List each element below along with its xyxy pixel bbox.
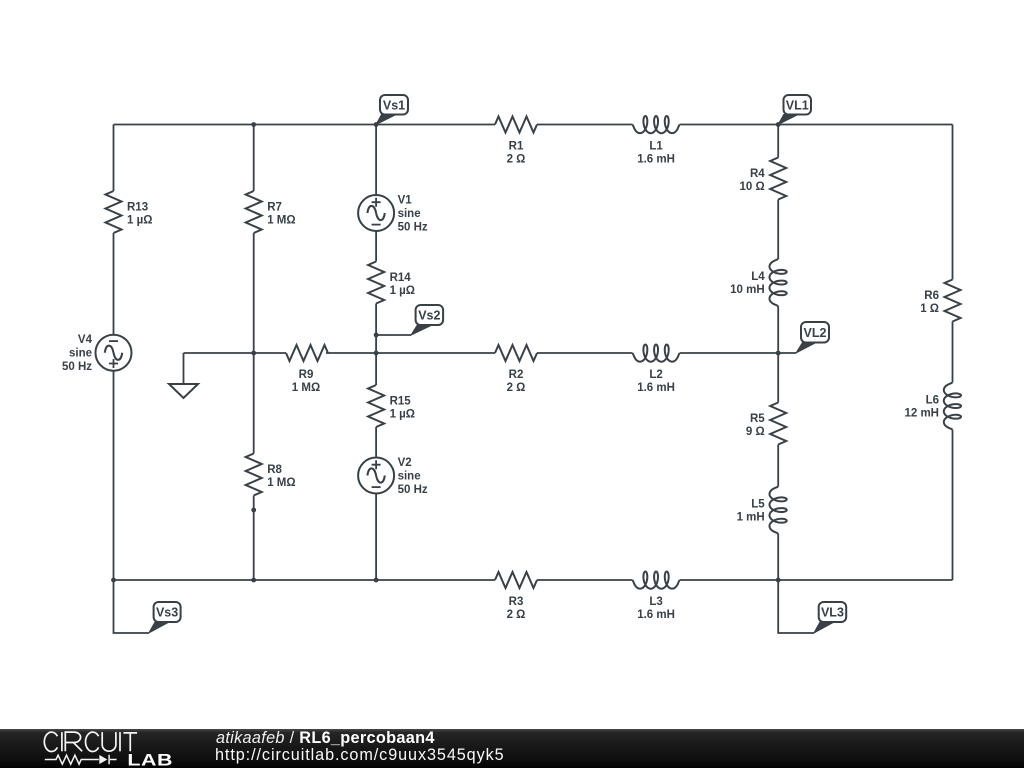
wire [777,200,779,260]
inductor L5 [737,487,787,534]
svg-text:R5: R5 [750,413,765,425]
svg-text:1 MΩ: 1 MΩ [292,382,320,394]
inductor L3 [633,572,680,622]
wire [375,427,377,458]
svg-text:1.6 mH: 1.6 mH [637,154,675,166]
svg-text:R13: R13 [127,202,148,214]
resistor R8 [246,454,296,496]
svg-text:R7: R7 [267,202,282,214]
svg-text:R1: R1 [509,141,524,153]
svg-text:1.6 mH: 1.6 mH [637,382,675,394]
svg-text:1 µΩ: 1 µΩ [390,285,415,297]
svg-text:R14: R14 [390,272,412,284]
junction [776,351,781,356]
svg-text:sine: sine [398,471,421,483]
svg-text:L6: L6 [926,395,939,407]
CircuitLab logo [0,728,210,768]
wire [326,352,495,354]
svg-text:2 Ω: 2 Ω [507,382,526,394]
svg-text:sine: sine [69,348,92,360]
voltage source V2 [358,457,428,496]
junction [251,508,256,513]
wire [253,496,255,581]
footer text [216,729,435,748]
resistor R5 [746,403,786,445]
svg-text:1 Ω: 1 Ω [920,303,939,315]
svg-text:VL3: VL3 [821,606,844,620]
svg-text:1 mH: 1 mH [737,512,765,524]
wire [777,445,779,487]
wire [184,352,287,354]
junction [374,333,379,338]
svg-text:L5: L5 [751,499,765,511]
wire [114,579,496,581]
node Vs3 [114,580,181,633]
resistor R3 [495,572,537,621]
resistor R9 [286,345,328,394]
wire [777,306,779,353]
svg-text:1 MΩ: 1 MΩ [267,477,295,489]
inductor L1 [633,116,680,166]
wire [777,125,779,158]
inductor L6 [904,383,961,430]
inductor L4 [730,259,787,306]
wire [680,124,953,126]
svg-text:LAB: LAB [127,752,173,768]
junction [776,578,781,583]
svg-text:L3: L3 [649,596,662,608]
resistor R14 [368,262,415,304]
svg-text:L4: L4 [751,271,765,283]
wire [114,124,496,126]
wire [777,534,779,580]
svg-text:Vs1: Vs1 [383,98,405,112]
voltage source V1 [358,195,428,234]
resistor R6 [920,280,960,322]
resistor R2 [495,345,537,394]
resistor R4 [739,158,786,200]
junction [251,578,256,583]
node Vs1 [376,95,408,125]
svg-text:12 mH: 12 mH [904,408,939,420]
wire [113,371,115,580]
junction [374,351,379,356]
resistor R13 [106,191,153,233]
svg-text:1.6 mH: 1.6 mH [637,609,675,621]
svg-text:V2: V2 [398,457,412,469]
svg-text:50 Hz: 50 Hz [398,484,428,496]
svg-text:sine: sine [398,208,421,220]
svg-text:1 MΩ: 1 MΩ [267,215,295,227]
resistor R1 [495,117,537,166]
svg-text:1 µΩ: 1 µΩ [390,409,415,421]
inductor L2 [633,345,680,395]
wire [537,579,633,581]
junction [251,351,256,356]
junction [111,578,116,583]
wire [375,304,377,386]
wire [537,124,633,126]
junction [374,578,379,583]
svg-text:10 Ω: 10 Ω [739,181,764,193]
wire [113,233,115,335]
svg-text:R15: R15 [390,396,412,408]
wire [777,353,779,403]
svg-text:2 Ω: 2 Ω [507,609,526,621]
junction [374,122,379,127]
footer bar [0,729,1024,768]
svg-text:V4: V4 [78,334,93,346]
junction [776,122,781,127]
wire [253,125,255,192]
svg-text:9 Ω: 9 Ω [746,426,765,438]
resistor R15 [368,385,415,427]
svg-text:10 mH: 10 mH [730,284,765,296]
wire [375,494,377,581]
svg-text:2 Ω: 2 Ω [507,154,526,166]
svg-text:VL1: VL1 [786,98,809,112]
wire [952,125,954,280]
svg-text:R6: R6 [924,290,939,302]
node VL1 [778,95,811,125]
ground [169,353,198,398]
svg-text:50 Hz: 50 Hz [62,361,92,373]
wire [253,233,255,454]
svg-text:V1: V1 [398,195,413,207]
node VL2 [778,322,829,353]
wire [113,125,115,192]
wire [952,430,954,580]
svg-text:R2: R2 [509,369,524,381]
wire [375,125,377,196]
wire [680,352,779,354]
svg-text:VL2: VL2 [804,326,827,340]
svg-text:L1: L1 [649,141,663,153]
junction [251,122,256,127]
svg-text:Vs2: Vs2 [418,309,440,323]
node Vs2 [376,305,443,335]
svg-text:R3: R3 [509,596,524,608]
svg-text:R9: R9 [299,369,314,381]
resistor R7 [246,191,296,233]
wire [537,352,633,354]
wire [952,322,954,383]
svg-text:R8: R8 [267,464,282,476]
svg-text:Vs3: Vs3 [156,606,178,620]
wire [680,579,953,581]
node VL3 [778,580,846,633]
voltage source V4 [62,334,132,373]
svg-text:R4: R4 [750,168,765,180]
wire [375,231,377,262]
svg-text:1 µΩ: 1 µΩ [127,215,152,227]
svg-text:50 Hz: 50 Hz [398,222,428,234]
svg-text:L2: L2 [649,369,662,381]
